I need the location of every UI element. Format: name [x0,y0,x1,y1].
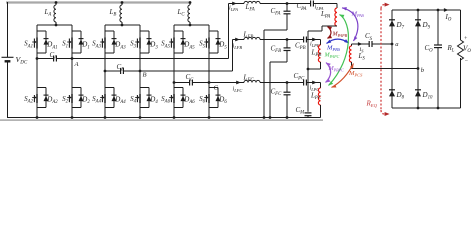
transistor SA4 [104,88,106,95]
wire: phase C mid rail left [174,82,190,84]
wire: C_PB to L_PB with arrow i_LPB [306,39,320,41]
wire: leg x=37 to phase node [36,53,38,59]
boundary R_EQ dashed line [380,9,382,111]
coupling M_PAPC (green arc L_PA to L_PC) [329,15,349,86]
wire: cell SA3 bottom rail [105,52,114,54]
capacitor C_FC [286,83,288,93]
wire: node B feed riser [232,40,234,72]
node: L_B tap on DC+ bus [121,1,124,4]
diode D3 [148,31,150,53]
wire: phase A tank row start [229,3,245,5]
wire: cell S4 top rail [140,87,149,89]
wire: leg x=37 lower drop [36,59,38,88]
wire: rectifier top rail [392,9,461,11]
svg-text:+: + [464,36,468,42]
wire: cell S1 top rail [72,30,81,32]
wire: phase C tank row start [237,82,244,84]
transistor S2 [71,88,73,95]
node: phase C coil junction [189,24,192,27]
wire: cell SA5 bottom rail [174,52,183,54]
wire: leg x=140 to phase node [139,53,141,71]
capacitor C_C [189,80,191,86]
node: leg x=174 phase C midpoint [173,81,176,84]
wire: leg x=209 upper drop [208,25,210,31]
wire: leg x=209 lower drop [208,83,210,88]
transistor SA2 [36,88,38,95]
battery V_DC [2,56,14,58]
node: phase B coil junction [121,24,124,27]
wire: C_FA drop to DC- rail [286,14,288,30]
inductor L_FC [244,80,260,82]
wire: rectifier leg 2 [417,10,419,108]
node: leg x=209 phase C midpoint [208,81,211,84]
transistor S6 [208,88,210,95]
wire: cell S2 bottom rail [72,107,81,109]
capacitor C_M [305,112,312,114]
transistor S3 [139,31,141,38]
inductor L_S (secondary coil) [351,44,353,46]
wire: phase C mid rail right [192,82,237,84]
wire: leg x=209 to phase node [208,53,210,83]
wire: phase A mid rail left [37,58,54,60]
node a [391,43,394,46]
wire: leg x=105 lower drop [104,71,106,88]
label i_LFB with arrow [235,38,240,42]
diode DA6 [182,88,184,108]
capacitor C_S [368,41,370,47]
wire: cell S6 top rail [209,87,218,89]
node b [417,67,420,70]
wire: L_S top to C_S with arrow i_S [352,43,370,45]
wire: leg x=72 lower drop [71,59,73,88]
wire: leg x=209 to DC- rail [208,108,210,118]
wire: leg x=37 to DC- rail [36,108,38,118]
coupling M_PAS (purple arc L_PA to L_S) [342,8,358,41]
capacitor C_A [53,56,55,62]
diode DA3 [113,31,115,53]
wire: cell S5 bottom rail [209,52,218,54]
node: L_A tap on DC+ bus [55,1,58,4]
coupling M_PAPB (dark red arc L_PA to L_PB) [328,27,332,39]
transistor SA6 [173,88,175,95]
inductor L_FB [244,37,260,39]
wire: L_PC return to DC- rail [320,105,322,118]
inductor L_A [55,3,57,6]
capacitor C_PC [303,80,305,86]
wire: cell SA6 top rail [174,87,183,89]
node: leg x=105 on DC- rail [104,116,107,119]
label i_LFC with arrow [236,81,241,85]
wire: L_S bottom to node b [351,62,353,69]
diode D5 [217,31,219,53]
node: C_FB tap on phase B row [286,38,289,41]
node: C_O bottom [437,107,440,110]
wire: leg x=174 lower drop [173,83,175,88]
wire: leg x=174 to phase node [173,53,175,83]
wire: phase B upper rail [105,24,140,26]
diode D_9 [415,19,421,21]
diode DA4 [113,88,115,108]
source V_DC negative lead wire [7,61,9,118]
wire: phase B mid rail right [123,70,232,72]
capacitor C_FB [286,40,288,48]
wire: L_PB return [320,62,322,69]
wire: DC- bottom rail [8,117,321,119]
wire: node A feed riser [228,4,230,59]
node: C_FA leg on DC- rail [263,116,266,119]
wire: leg x=105 to DC- rail [104,108,106,118]
node: leg2 top [417,9,420,12]
node: leg x=174 on DC- rail [173,116,176,119]
node: C_FC leg on DC- rail [286,116,289,119]
wire: L_PA return [322,25,337,27]
inductor L_PA (primary coil A) [335,8,337,26]
coupling M_PBS (blue arc L_PB to L_S) [327,39,349,43]
capacitor C_FA [286,4,288,12]
diode D2 [80,88,82,108]
node: C_FB leg on DC- rail [269,116,272,119]
transistor SA5 [173,31,175,38]
wire: bottom gray band along DC- bus [0,119,323,121]
wire: cell SA3 top rail [105,30,114,32]
wire: leg x=105 upper drop [104,25,106,31]
wire: DC+ top bus (gray) [6,1,191,3]
wire: cell S3 bottom rail [140,52,149,54]
node: tank common return junction [307,68,310,71]
wire: leg x=174 upper drop [173,25,175,31]
wire: cell SA2 top rail [37,87,46,89]
wire: cell S2 top rail [72,87,81,89]
transistor S5 [208,31,210,38]
wire: cell S5 top rail [209,30,218,32]
inductor L_PC (primary coil C) [318,88,320,105]
wire: C_FB drop to DC- rail [286,51,288,63]
wire: cell SA1 bottom rail [37,52,46,54]
node: C_O top [437,9,440,12]
transistor S1 [71,31,73,38]
wire: L_FB to C_PB [260,39,304,41]
wire: leg x=72 to phase node [71,53,73,59]
wire: cell SA2 bottom rail [37,107,46,109]
diode D_8 [389,89,395,91]
diode D_7 [389,19,395,21]
inductor L_PB (primary coil B) [318,45,320,62]
wire: leg x=72 to DC- rail [71,108,73,118]
node: leg x=140 phase B midpoint [139,70,142,73]
wire: L_FC to C_PC [260,82,304,84]
wire: C_PA to L_PA [313,3,337,5]
wire: cell SA4 bottom rail [105,107,114,109]
svg-text:−: − [464,58,468,64]
wire: leg x=37 upper drop [36,25,38,31]
wire: L_FA to C_PA [260,3,311,5]
wire: phase B mid rail left [105,70,121,72]
diode D1 [80,31,82,53]
capacitor C_B [120,68,122,74]
inductor L_FA [244,1,260,3]
node: leg x=209 on DC- rail [208,116,211,119]
source V_DC positive lead wire [7,2,9,57]
wire: leg x=140 to DC- rail [139,108,141,118]
capacitor C_PB [303,37,305,43]
node: leg x=72 phase A midpoint [71,57,74,60]
wire: cell S6 bottom rail [209,107,218,109]
label i_LFA with arrow [232,2,237,6]
node: C_FA tap on phase A row [286,2,289,5]
wire: cell S4 bottom rail [140,107,149,109]
svg-text:C: C [214,85,219,92]
node: phase A coil junction [55,24,58,27]
node: C_FC tap on phase C row [286,81,289,84]
diode DA1 [45,31,47,53]
node: leg x=72 on DC- rail [71,116,74,119]
capacitor C_O [437,10,439,45]
wire: leg x=72 upper drop [71,25,73,31]
node: leg x=105 phase B midpoint [104,70,107,73]
wire: phase C upper rail [174,24,209,26]
wire: cell SA6 bottom rail [174,107,183,109]
wire: phase A mid rail right [56,58,228,60]
transistor SA1 [36,31,38,38]
diode D6 [217,88,219,108]
wire: rectifier leg 1 [391,10,393,108]
wire: leg x=140 lower drop [139,71,141,88]
diode D4 [148,88,150,108]
inductor L_B [121,3,123,6]
node: leg x=140 on DC- rail [139,116,142,119]
wire: phase B tank row start [233,39,245,41]
node: leg x=37 phase A midpoint [36,57,39,60]
diode D_10 [415,89,421,91]
wire: cell SA5 top rail [174,30,183,32]
wire: cell SA1 top rail [37,30,46,32]
wire: C_S to node a [372,43,392,45]
wire: leg x=174 to DC- rail [173,108,175,118]
node: leg x=37 on DC- rail [36,116,39,119]
capacitor C_PA [310,1,312,7]
label I_O with arrow [444,8,449,12]
diode DA2 [45,88,47,108]
wire: C_FC drop to DC- rail [286,95,288,118]
node: leg2 bottom [417,107,420,110]
coupling M_PCS (orange-red arc L_PC to L_S) [332,64,354,88]
wire: leg x=140 upper drop [139,25,141,31]
resistor R_L [460,10,462,40]
wire: leg x=105 to phase node [104,53,106,71]
transistor SA3 [104,31,106,38]
wire: cell SA4 top rail [105,87,114,89]
node: L_C tap on DC+ bus [189,1,192,4]
wire: cell S3 top rail [140,30,149,32]
svg-text:B: B [143,72,147,79]
coupling M_PBPC (violet arc L_PB to L_PC) [326,63,331,83]
diode DA5 [182,31,184,53]
transistor S4 [139,88,141,95]
inductor L_C [189,3,191,6]
wire: phase A upper rail [37,24,72,26]
wire: rectifier bottom rail [392,107,461,109]
wire: C_PC to L_PC with arrow i_LPC [306,82,320,84]
wire: cell S1 bottom rail [72,52,81,54]
